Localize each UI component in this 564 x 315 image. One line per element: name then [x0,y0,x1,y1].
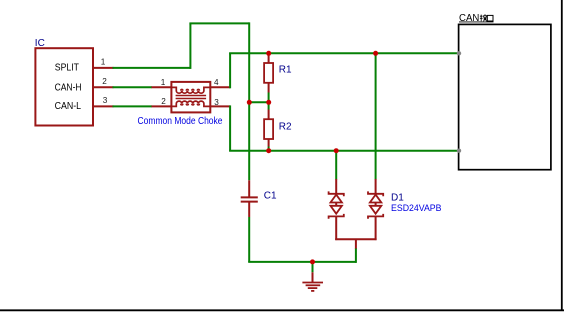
IC pin name CAN-L [55,101,82,112]
svg-text:1: 1 [161,78,166,87]
wire CAN-L: bottom bus to connector [229,150,459,152]
IC pin 2 number [102,77,107,86]
IC pin 3 stub [93,105,113,107]
svg-text:R1: R1 [279,64,292,75]
IC pin 1 number [101,58,106,67]
choke pin 1 stub [152,86,172,88]
svg-text:2: 2 [102,77,107,86]
wire D1 right branch from CAN-H bus [375,53,377,179]
designator IC [35,38,45,49]
wire SPLIT net: long vertical drop to C1 [248,22,250,180]
choke pin 4 number [214,78,219,87]
wire SPLIT net: top horizontal [189,22,249,24]
wire CAN-H: IC pin2 to choke pin1 [113,86,153,88]
hand-drawn 口 glyph [487,15,493,21]
junction at R1/R2 midpoint [266,100,271,105]
hand-drawn 接 glyph [480,14,487,21]
component IC (box) [35,48,93,125]
label ESD24VAPB [391,203,442,214]
wire CAN-L: IC pin3 to choke pin2 [113,105,153,107]
label R2 [279,122,292,133]
wire SPLIT net: pin1 to riser [113,67,191,69]
IC pin name CAN-H [55,82,82,93]
junction CAN-H at D1 branch [373,51,378,56]
common mode choke body [171,82,210,113]
choke pin 2 stub [152,105,172,107]
svg-text:3: 3 [214,98,219,107]
svg-text:ESD24VAPB: ESD24VAPB [391,203,442,214]
choke pin 2 number [161,97,166,106]
svg-text:D1: D1 [391,192,404,203]
wire ground net: bottom horizontal [248,261,356,263]
wire CAN-L: choke pin3 drop down [229,105,231,150]
svg-text:1: 1 [101,58,106,67]
label C1 [264,190,277,201]
resistor R1 [264,53,273,102]
svg-text:CAN: CAN [459,13,479,24]
IC pin 2 stub [93,86,113,88]
svg-text:IC: IC [35,38,45,49]
svg-text:4: 4 [214,78,219,87]
connector pin dot CAN-H [457,51,461,55]
label R1 [279,64,292,75]
junction CAN-L at R2 bottom [266,148,271,153]
wire CAN-H: choke pin4 riser up [229,53,231,88]
connector pin dot CAN-L [457,149,461,153]
wire ground net: C1 bottom drop [248,217,250,262]
junction CAN-L at D1 branch [334,148,339,153]
wire SPLIT net: horizontal to R1/R2 midpoint [249,101,269,103]
svg-text:R2: R2 [279,122,292,133]
junction at ground tap [310,259,315,264]
TVS diode D1 right stack [368,179,383,240]
label Common Mode Choke [138,116,223,127]
wire SPLIT net: left riser up [189,23,191,69]
svg-text:Common Mode Choke: Common Mode Choke [138,116,223,127]
svg-text:C1: C1 [264,190,277,201]
IC pin 1 stub [93,67,113,69]
svg-text:SPLIT: SPLIT [55,63,79,74]
connector label CAN接口 [459,13,494,24]
svg-text:2: 2 [161,97,166,106]
wire D1 left branch from CAN-L bus [335,151,337,180]
svg-text:3: 3 [103,96,108,105]
choke pin 4 stub [210,86,230,88]
capacitor C1 [241,180,258,217]
svg-text:CAN-H: CAN-H [55,82,82,93]
resistor R2 [264,102,273,150]
svg-text:CAN-L: CAN-L [55,101,82,112]
ground symbol [302,262,323,291]
IC pin 3 number [103,96,108,105]
junction at SPLIT vertical / midpoint link [247,100,252,105]
choke pin 3 number [214,98,219,107]
connector CAN接口 box [459,24,551,169]
wire ground net: D1 center tap riser [355,248,357,263]
IC pin name SPLIT [55,63,79,74]
D1 bottom bridge [335,239,376,248]
label D1 [391,192,404,203]
choke pin 3 stub [210,105,230,107]
wire CAN-H: top bus to connector [229,52,459,54]
TVS diode D1 left stack [329,179,344,240]
junction CAN-H at R1 top [266,51,271,56]
choke pin 1 number [161,78,166,87]
